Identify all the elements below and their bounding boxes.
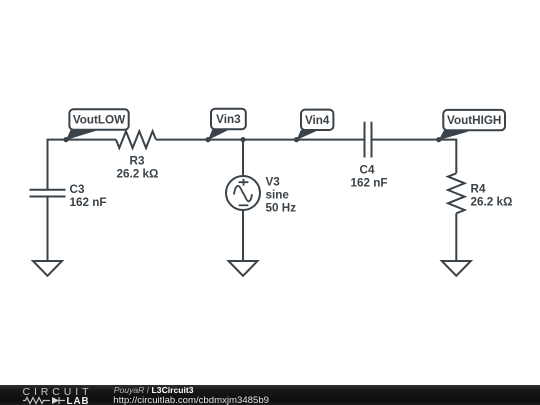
wire: C4 to corner and down to R4 bbox=[372, 140, 457, 174]
capacitor C3 bbox=[30, 183, 107, 209]
svg-text:Vin4: Vin4 bbox=[305, 114, 330, 127]
wire: V3 top lead bbox=[242, 140, 244, 176]
CircuitLab logo: CIRCUIT wordmark bbox=[23, 386, 93, 398]
svg-text:V3: V3 bbox=[266, 175, 281, 188]
ground (under R4) bbox=[442, 261, 471, 276]
ground (under C3) bbox=[33, 261, 62, 276]
node flag VoutHIGH bbox=[436, 110, 505, 142]
capacitor C4 bbox=[351, 122, 388, 190]
wire: R3 to C4 (through Vin3, V3 node, Vin4) bbox=[156, 139, 365, 141]
footer url line bbox=[113, 395, 269, 405]
svg-text:26.2 kΩ: 26.2 kΩ bbox=[471, 196, 513, 209]
wire: C3 top lead and run to R3 bbox=[48, 140, 117, 190]
node flag Vin3 bbox=[205, 109, 245, 142]
svg-text:Vin3: Vin3 bbox=[216, 113, 241, 126]
footer title line bbox=[114, 385, 194, 395]
ground (under V3) bbox=[229, 261, 258, 276]
svg-text:26.2 kΩ: 26.2 kΩ bbox=[117, 168, 159, 181]
resistor R3 bbox=[116, 131, 158, 181]
svg-text:LAB: LAB bbox=[67, 396, 90, 405]
svg-text:R4: R4 bbox=[471, 183, 486, 196]
resistor R4 bbox=[448, 173, 512, 213]
svg-text:R3: R3 bbox=[130, 155, 145, 168]
svg-text:50 Hz: 50 Hz bbox=[266, 201, 297, 214]
svg-text:162 nF: 162 nF bbox=[351, 177, 388, 190]
wire: V3 bottom lead to ground bbox=[242, 210, 244, 261]
svg-text:C4: C4 bbox=[360, 164, 375, 177]
svg-text:C3: C3 bbox=[70, 183, 85, 196]
svg-text:162 nF: 162 nF bbox=[70, 196, 107, 209]
voltage source V3 (sine) bbox=[226, 175, 296, 214]
CircuitLab logo: zigzag+diode symbol and LAB bbox=[23, 396, 93, 405]
node junction dot at V3 bbox=[240, 137, 245, 142]
svg-text:VoutLOW: VoutLOW bbox=[73, 114, 126, 127]
wire: C3 bottom lead to ground bbox=[47, 197, 49, 262]
node flag Vin4 bbox=[294, 110, 334, 143]
svg-text:VoutHIGH: VoutHIGH bbox=[447, 114, 501, 127]
wire: R4 bottom lead to ground bbox=[455, 213, 457, 261]
node flag VoutLOW bbox=[63, 109, 128, 142]
svg-text:sine: sine bbox=[266, 188, 290, 201]
